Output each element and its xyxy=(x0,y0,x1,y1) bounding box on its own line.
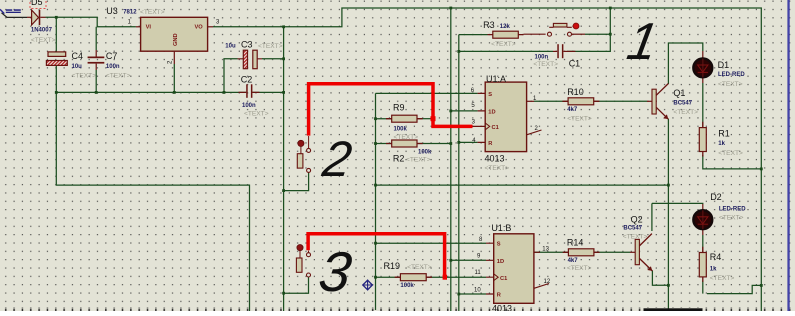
resistor R4 (vertical) xyxy=(699,247,706,282)
svg-text:BC547: BC547 xyxy=(673,101,692,107)
svg-text:<TEXT>: <TEXT> xyxy=(394,134,419,141)
svg-text:1k: 1k xyxy=(710,266,717,272)
svg-text:C3: C3 xyxy=(241,40,253,50)
svg-text:12k: 12k xyxy=(500,24,511,30)
sheet border right xyxy=(787,0,789,311)
wire C3 left drop xyxy=(224,59,238,93)
svg-text:1D: 1D xyxy=(497,259,504,265)
svg-text:100n: 100n xyxy=(535,54,549,60)
svg-text:<TEXT>: <TEXT> xyxy=(258,43,283,50)
wire R1 bottom to right rail xyxy=(703,155,762,169)
svg-text:<TEXT>: <TEXT> xyxy=(718,150,743,157)
resistor R14 xyxy=(563,249,600,256)
svg-text:<TEXT>: <TEXT> xyxy=(407,264,432,271)
wire C7 bottom to rail xyxy=(95,70,97,92)
ground bar xyxy=(644,308,703,311)
regulator U3 xyxy=(136,17,213,64)
svg-text:1N4007: 1N4007 xyxy=(31,28,53,34)
svg-text:1k: 1k xyxy=(718,141,725,147)
wire D1 bottom to R1 xyxy=(702,83,704,128)
capacitor C1 xyxy=(553,44,575,58)
bus x375 vertical xyxy=(375,93,377,310)
switch3 bottom drop xyxy=(284,277,309,293)
diode D5 xyxy=(27,10,46,25)
svg-text:R: R xyxy=(497,293,501,299)
origin marker (blue crosshair) xyxy=(362,280,373,291)
svg-text:<TEXT>: <TEXT> xyxy=(718,81,743,88)
wire U1:A S pin from bus375 xyxy=(376,92,478,94)
svg-text:4k7: 4k7 xyxy=(567,107,578,113)
svg-text:S: S xyxy=(488,92,492,98)
svg-text:U1:B: U1:B xyxy=(491,223,511,233)
resistor R9 xyxy=(386,115,423,122)
wire U3 GND down to ground rail xyxy=(173,64,175,92)
resistor R2 xyxy=(386,140,423,147)
svg-text:R4: R4 xyxy=(710,252,722,262)
svg-text:<TEXT>: <TEXT> xyxy=(623,233,648,240)
wire U1:B 1D from bus450 xyxy=(451,259,486,261)
capacitor C7 xyxy=(88,50,105,70)
wire Q1 collector up and over to D1 xyxy=(668,43,702,84)
svg-text:4013: 4013 xyxy=(485,154,505,164)
capacitor C3 (electrolytic) xyxy=(238,50,263,68)
resistor R10 xyxy=(562,98,599,105)
svg-text:R10: R10 xyxy=(567,87,584,97)
bus x450 from top rail xyxy=(450,8,452,311)
svg-text:LED-RED: LED-RED xyxy=(719,206,746,212)
wire U1:B R from bus458 xyxy=(459,293,486,295)
resistor R3 xyxy=(488,31,546,38)
svg-text:VI: VI xyxy=(146,25,152,31)
capacitor C4 (electrolytic) xyxy=(46,52,67,66)
wire U1:A R from bus458 xyxy=(459,141,478,143)
svg-text:100k: 100k xyxy=(400,283,414,289)
svg-text:GND: GND xyxy=(173,33,179,46)
svg-text:R14: R14 xyxy=(567,237,584,247)
svg-text:4013: 4013 xyxy=(492,304,512,312)
svg-text:U3: U3 xyxy=(106,6,118,16)
resistor R1 (vertical) xyxy=(699,122,706,157)
svg-text:C1: C1 xyxy=(492,125,499,131)
svg-text:<TEXT>: <TEXT> xyxy=(406,156,431,163)
wire U1:A pin1 to R10 xyxy=(534,100,570,102)
input terminal (blue) xyxy=(0,9,21,13)
svg-text:<TEXT>: <TEXT> xyxy=(31,37,56,44)
svg-text:<TEXT>: <TEXT> xyxy=(567,265,592,272)
wire U1:B S from bus375 xyxy=(376,242,487,244)
svg-text:D2: D2 xyxy=(710,192,722,202)
transistor Q1 (BC547) xyxy=(647,84,668,120)
svg-text:R1: R1 xyxy=(718,128,730,138)
wire R4 bottom jog to right rail xyxy=(707,285,761,293)
wire U1:A 1D from bus450 xyxy=(451,110,478,112)
svg-text:<TEXT>: <TEXT> xyxy=(710,275,735,282)
bus x458 from R3 corner xyxy=(458,35,460,311)
svg-text:R: R xyxy=(488,141,492,147)
svg-text:Q1: Q1 xyxy=(673,88,685,98)
svg-text:R19: R19 xyxy=(384,261,401,271)
svg-text:C1: C1 xyxy=(569,59,581,69)
svg-text:R9: R9 xyxy=(393,102,405,112)
svg-text:<TEXT>: <TEXT> xyxy=(244,111,269,118)
svg-text:U1:A: U1:A xyxy=(486,74,506,84)
switch 3 (push button, rotated) xyxy=(296,245,310,278)
red wire from switch 2 to U1:A clock xyxy=(309,84,473,136)
flip-flop U1:A xyxy=(473,82,542,152)
svg-text:<TEXT>: <TEXT> xyxy=(106,72,131,79)
svg-text:C4: C4 xyxy=(72,51,84,61)
flip-flop U1:B xyxy=(486,234,549,303)
svg-text:C2: C2 xyxy=(241,75,253,85)
selection box around D5 label xyxy=(30,0,46,9)
svg-text:100k: 100k xyxy=(418,149,432,155)
wire R2 left from bus375 xyxy=(376,143,394,145)
svg-text:<TEXT>: <TEXT> xyxy=(485,165,510,172)
transistor Q2 (BC547) xyxy=(630,234,652,271)
wire R10 to Q1 base xyxy=(592,100,647,102)
LED D1 xyxy=(693,51,712,83)
svg-text:<TEXT>: <TEXT> xyxy=(567,115,592,122)
resistor R19 xyxy=(395,274,432,281)
svg-text:7812: 7812 xyxy=(123,10,137,16)
svg-text:LED-RED: LED-RED xyxy=(718,72,745,78)
wire C3 right to bus283 xyxy=(262,58,284,60)
wire R2 right to bus450 xyxy=(416,143,451,145)
wire input to diode D5 xyxy=(2,13,28,18)
wire R19 right to U1:B C1 pin xyxy=(425,276,486,278)
svg-text:100n: 100n xyxy=(106,64,120,70)
wire button right to drop x610 xyxy=(585,33,610,35)
switch 2 (push button, rotated) xyxy=(297,136,310,172)
LED D2 xyxy=(693,204,712,235)
svg-text:100n: 100n xyxy=(242,103,256,109)
svg-text:D5: D5 xyxy=(31,0,43,7)
wire Q2 emitter to junction xyxy=(652,271,668,286)
switch2 bottom drop xyxy=(284,173,309,191)
svg-text:10: 10 xyxy=(474,288,481,294)
ground rail right of C2 xyxy=(252,91,283,93)
wire C1 left from bus458 xyxy=(459,50,553,52)
wire C4 bottom to rail xyxy=(55,65,57,92)
svg-text:<TEXT>: <TEXT> xyxy=(673,109,698,116)
wire C1 right to button drop xyxy=(567,8,610,51)
wire D2 bottom to R4 xyxy=(702,235,704,253)
wire R9 left from bus375 xyxy=(376,118,394,120)
svg-text:1D: 1D xyxy=(488,110,495,116)
wire U1:B pin13 to R14 xyxy=(535,251,570,253)
svg-text:VO: VO xyxy=(195,25,204,31)
wire R9 right to red junction xyxy=(416,118,432,120)
svg-text:R3: R3 xyxy=(483,20,495,30)
svg-text:12: 12 xyxy=(544,279,551,285)
svg-text:<TEXT>: <TEXT> xyxy=(533,61,558,68)
wire D2 top from Q2 collector xyxy=(652,202,703,205)
svg-text:S: S xyxy=(497,242,501,248)
wire diode to node A top rail y17 xyxy=(46,17,136,27)
left ground drop x56 to rail B xyxy=(56,92,249,311)
push button (top, near R3) xyxy=(548,23,586,36)
svg-text:100k: 100k xyxy=(394,126,408,132)
wire C4 stem top xyxy=(55,17,57,52)
svg-text:13: 13 xyxy=(542,246,549,252)
svg-text:C1: C1 xyxy=(500,276,507,282)
wire R14 to Q2 base xyxy=(593,251,631,253)
wire R4 bottom xyxy=(702,281,704,294)
wire R19 left from bus375 xyxy=(376,276,402,278)
red wire from switch 3 to U1:B clock xyxy=(308,234,447,277)
svg-text:<TEXT>: <TEXT> xyxy=(140,9,165,16)
rail B y185 from bus375 to Q1 emitter xyxy=(376,184,669,186)
wire C7 stem xyxy=(95,27,97,50)
capacitor C2 xyxy=(239,84,260,98)
wire R3 left from bus458 xyxy=(459,34,488,36)
svg-text:C7: C7 xyxy=(106,51,118,61)
svg-text:10u: 10u xyxy=(225,44,236,50)
wire Q2 collector vertical xyxy=(651,203,653,231)
svg-text:<TEXT>: <TEXT> xyxy=(72,72,97,79)
bus x283 vertical xyxy=(283,27,285,311)
svg-text:R2: R2 xyxy=(393,153,405,163)
svg-text:4k7: 4k7 xyxy=(568,258,579,264)
ground rail y93 xyxy=(56,91,246,93)
svg-text:11: 11 xyxy=(475,270,482,276)
svg-text:BC547: BC547 xyxy=(623,226,642,232)
svg-text:10u: 10u xyxy=(72,64,83,70)
svg-text:Q2: Q2 xyxy=(631,214,643,224)
svg-text:D1: D1 xyxy=(718,60,730,70)
svg-text:<TEXT>: <TEXT> xyxy=(491,41,516,48)
wire Q1 emitter down to ground bar xyxy=(667,119,669,309)
svg-text:<TEXT>: <TEXT> xyxy=(719,214,744,221)
wire U3 VO to step-up corner xyxy=(213,8,761,311)
